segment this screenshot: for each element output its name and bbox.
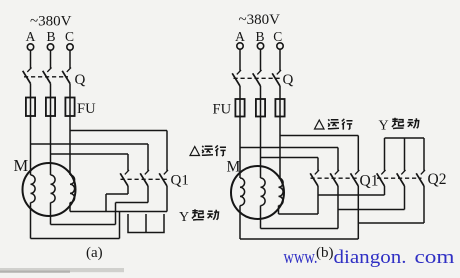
svg-text:Q2: Q2 [428,171,447,188]
switch Q1 pole 1 (b) contact tick [315,170,319,174]
svg-text:C: C [273,29,282,44]
terminal node C (a) [67,44,73,50]
svg-text:FU: FU [77,101,96,117]
wire branch phase A to Q1 pole2 vertical (b) [337,148,339,171]
terminal node C (b) [277,43,283,49]
svg-text:(a): (a) [86,245,103,261]
terminal node A (b) [237,43,243,49]
fuse FU phase A (b) [235,99,244,117]
svg-text:Q1: Q1 [171,173,189,189]
switch Q2 pole 3 (b) contact tick [421,170,425,174]
wire node V2 to Q1 pole2 horizontal (b) [261,228,339,230]
switch Q pole 2 (a) contact tick [47,68,51,72]
switch Q pole 1 (a) contact tick [27,68,31,72]
fuse FU phase C (b) [275,99,284,117]
wire Q1 pole2 hinge down (b) [337,186,339,229]
wire branch phase C to Q1 pole3 vertical (a) [166,131,168,171]
wire node U2 to Q1 pole3 horizontal (b) [240,238,358,240]
wire Q1 pole3 hinge down to W2 bus (a) [166,186,168,212]
label Y-start (b) [379,118,419,134]
wire phase C fuse to winding W1 (a) [69,116,71,175]
wire branch phase A to Q1 pole2 horizontal (b) [240,147,338,149]
switch Q pole 1 (a) blade [23,71,31,84]
switch Q1 pole 2 (a) blade [140,173,148,186]
wire Q1 pole1 hinge down (b) [317,186,319,214]
wire Q1 pole1 hinge down (a) [127,186,129,194]
switch Q1 pole 2 (b) blade [330,173,338,186]
switch Q2 (b) mechanical linkage (dashed) [377,177,422,179]
svg-text:A: A [235,29,245,44]
winding V (a) (stator winding, 3 arcs) [51,175,56,203]
switch Q (a) mechanical linkage (dashed) [24,76,68,78]
wire phase B fuse to winding V1 (b) [260,117,262,179]
wire phase B fuse to winding V1 (a) [50,116,52,175]
wire branch phase B to Q1 pole1 horizontal (b) [261,157,319,159]
svg-text:M: M [14,156,29,175]
label Y-start (a) [179,209,219,225]
wire node V2 to Q2 pole2 horizontal (b) [338,209,405,211]
scan smudge bottom left [0,268,124,272]
wire Q1 pole2 step vertical to V2 bus (a) [115,203,117,225]
switch Q1 pole 3 (a) blade [159,173,167,186]
wire branch phase A to Q1 pole2 vertical (a) [147,144,149,171]
svg-text:~380V: ~380V [239,12,281,28]
Y-start shorting link (a) [128,214,164,233]
wire branch phase C to Q1 pole3 vertical (b) [357,136,359,171]
switch Q1 pole 2 (b) contact tick [335,170,339,174]
switch Q (b) mechanical linkage (dashed) [234,77,283,79]
svg-text:www.: www. [284,247,318,268]
svg-text:~380V: ~380V [30,14,72,30]
wire node W2 to Q2 pole1 horizontal (b) [318,194,385,196]
wire phase A switch Q through fuse (b) [239,86,241,117]
switch Q1 pole 3 (b) blade [351,173,359,186]
wire phase A terminal to switch Q (a) [30,50,32,68]
wire winding W bottom lead (b) [278,206,280,215]
svg-text:A: A [26,29,36,44]
wire Q1 pole2 hinge down (a) [147,186,149,203]
winding W (a) (stator winding, 3 arcs) [70,175,75,203]
switch Q1 (b) mechanical linkage (dashed) [311,177,360,179]
winding U (a) (stator winding, 3 arcs) [31,175,36,203]
wire node W2 to Q1 pole1 horizontal (b) [279,213,319,215]
svg-text:diangon.: diangon. [334,247,407,268]
terminal node B (b) [257,43,263,49]
wire Q2 pole3 hinge down (b) [423,186,425,223]
label delta-run (a) [190,145,226,156]
switch Q pole 2 (b) contact tick [257,70,261,74]
wire node U2 bus horizontal (a) [31,238,120,240]
wire phase C switch Q through fuse (a) [69,84,71,117]
winding V (b) (stator winding, 3 arcs) [261,178,266,206]
wire winding V bottom lead (a) [50,203,52,225]
wire winding U bottom lead (b) [239,206,241,240]
wire branch phase B to Q1 pole1 horizontal (a) [51,153,129,155]
wire phase A fuse to winding U1 (b) [239,117,241,179]
svg-text:Y: Y [179,210,189,225]
switch Q pole 2 (a) blade [43,71,51,84]
switch Q pole 1 (b) contact tick [237,70,241,74]
wire star bar to Q2 pole3 (b) [423,138,425,171]
svg-text:Q: Q [75,72,86,88]
switch Q pole 3 (a) contact tick [67,68,71,72]
switch Q pole 1 (b) blade [232,73,240,86]
wire node V2 bus horizontal (a) [51,224,116,226]
wire branch phase C to Q1 pole3 horizontal (b) [280,135,358,137]
svg-text:Y: Y [379,119,389,134]
switch Q pole 3 (a) blade [62,71,70,84]
wire branch phase A to Q1 pole2 horizontal (a) [31,143,149,145]
wire phase B switch Q through fuse (a) [50,84,52,117]
wire phase B terminal to switch Q (a) [50,50,52,68]
switch Q1 pole 1 (a) blade [120,173,128,186]
wire phase B switch Q through fuse (b) [260,86,262,117]
svg-text:FU: FU [213,102,232,118]
switch Q1 (a) mechanical linkage (dashed) [121,178,170,180]
winding U (b) (stator winding, 3 arcs) [240,178,245,206]
switch Q pole 3 (b) blade [272,73,280,86]
switch Q2 pole 1 (b) blade [377,173,385,186]
wire star bar to Q2 pole1 (b) [384,138,386,171]
terminal node B (a) [47,44,53,50]
winding W (b) (stator winding, 3 arcs) [279,178,284,206]
switch Q2 pole 3 (b) blade [416,173,424,186]
label delta-run (b) [315,119,353,130]
svg-text:B: B [255,29,264,44]
wire phase A fuse to winding U1 (a) [30,116,32,175]
switch Q1 pole 2 (a) contact tick [145,170,149,174]
terminal node A (a) [27,44,33,50]
switch Q2 pole 2 (b) contact tick [401,170,405,174]
wire star bar to Q2 pole2 (b) [404,138,406,171]
switch Q2 pole 2 (b) blade [397,173,405,186]
switch Q1 pole 3 (a) contact tick [164,170,168,174]
wire Q1 pole3 hinge down (b) [357,186,359,239]
wire phase C switch Q through fuse (b) [279,86,281,117]
motor M (b) stator circle [231,166,284,219]
wire node W2 bus horizontal (a) [70,211,167,213]
svg-text:Q: Q [283,72,294,88]
wire star-point bar above Q2 (b) [385,137,425,139]
switch Q1 pole 3 (b) contact tick [355,170,359,174]
svg-text:(b): (b) [316,245,334,261]
wire branch phase B to Q1 pole1 vertical (a) [127,154,129,171]
svg-text:com: com [415,247,455,268]
fuse FU phase C (a) [65,98,74,117]
wire phase A terminal to switch Q (b) [239,49,241,70]
svg-text:C: C [65,29,74,44]
switch Q1 pole 1 (b) blade [310,173,318,186]
wire phase A switch Q through fuse (a) [30,84,32,117]
watermark www.diangon.com [284,247,455,268]
wire branch phase B to Q1 pole1 vertical (b) [317,158,319,171]
wire Q2 pole1 hinge down (b) [384,186,386,195]
wire winding V bottom lead (b) [260,206,262,229]
wire winding U bottom lead (a) [30,203,32,239]
wire node U2 to Q2 pole3 horizontal (b) [358,222,424,224]
svg-text:Q1: Q1 [360,173,379,190]
svg-text:B: B [46,29,55,44]
switch Q pole 2 (b) blade [253,73,261,86]
wire phase B terminal to switch Q (b) [260,49,262,70]
switch Q1 pole 1 (a) contact tick [125,170,129,174]
wire branch phase C to Q1 pole3 horizontal (a) [70,130,167,132]
fuse FU phase B (b) [256,99,265,117]
motor M (a) stator circle [23,163,76,216]
switch Q pole 3 (b) contact tick [277,70,281,74]
wire Q2 pole2 hinge down (b) [404,186,406,210]
fuse FU phase B (a) [46,98,55,117]
wire Q1 pole2 step horizontal (a) [116,202,149,204]
switch Q2 pole 1 (b) contact tick [381,170,385,174]
wire winding W bottom lead (a) [69,203,71,212]
wire Q1 pole1 step horizontal (a) [106,193,128,195]
wire Q1 pole1 step vertical to W2 bus (a) [105,194,107,212]
wire phase C terminal to switch Q (b) [279,49,281,70]
fuse FU phase A (a) [26,98,35,117]
wire phase C fuse to winding W1 (b) [279,117,281,179]
wire U2 bus riser to W2 bus (a) [119,212,121,239]
wire phase C terminal to switch Q (a) [69,50,71,68]
